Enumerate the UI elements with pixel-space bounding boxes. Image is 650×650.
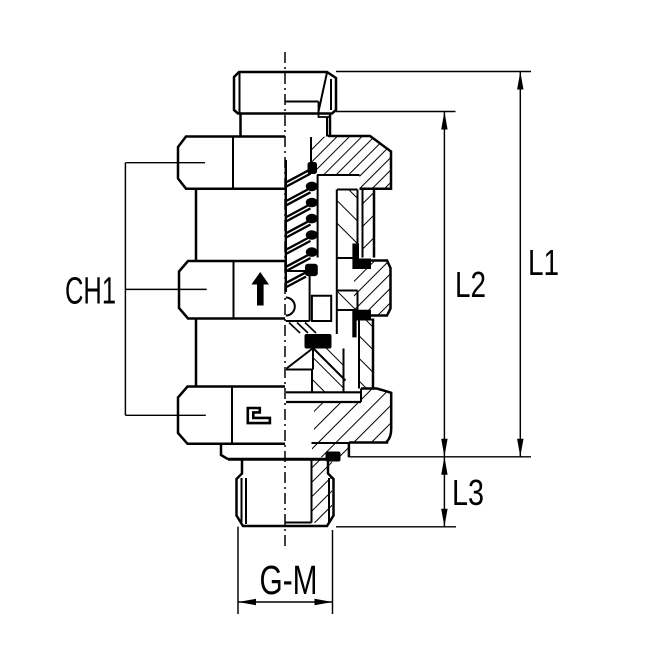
top stud right inner line bbox=[330, 79, 332, 110]
poppet stem box bbox=[312, 296, 331, 321]
svg-text:L3: L3 bbox=[452, 472, 484, 513]
bore shoulder line bbox=[286, 369, 312, 371]
svg-text:G-M: G-M bbox=[260, 557, 318, 603]
svg-text:CH1: CH1 bbox=[65, 271, 116, 313]
narrow section upper left edge bbox=[195, 190, 198, 261]
seal S3 bbox=[305, 334, 332, 349]
extension line stud bottom bbox=[336, 526, 456, 528]
cage upper outline bbox=[337, 189, 358, 191]
seat outer edge bbox=[343, 349, 345, 393]
hatch zone Z4 lower wall bbox=[359, 319, 373, 389]
cage bottom line bbox=[337, 257, 353, 259]
flow arrow glyph bbox=[251, 272, 269, 306]
poppet seat flange top line bbox=[286, 270, 310, 272]
cage right wall bbox=[357, 190, 359, 244]
hatch zone Z1b wall strip bbox=[363, 189, 375, 258]
bore wall below shoulder bbox=[311, 370, 313, 393]
top stud outline bbox=[234, 72, 336, 114]
G-M dimension line bbox=[238, 601, 333, 603]
washer left outline bbox=[221, 444, 228, 459]
washer band top line bbox=[286, 391, 361, 393]
middle hex left facet line bbox=[233, 261, 235, 319]
G symbol glyph bbox=[248, 408, 270, 423]
washer bottom thick edge bbox=[228, 458, 333, 461]
neck right edge bbox=[329, 114, 332, 137]
washer right edge bbox=[348, 443, 351, 457]
body wall outer edge bbox=[373, 189, 376, 258]
narrow section lower left edge bbox=[195, 319, 198, 387]
washer band bottom line bbox=[286, 401, 361, 403]
middle hex left outline bbox=[179, 261, 285, 319]
poppet nose arc bbox=[286, 298, 295, 316]
spring right guide line bbox=[317, 175, 319, 258]
neck right inner line bbox=[326, 117, 328, 137]
dimension L3 line bbox=[443, 457, 445, 527]
svg-text:L2: L2 bbox=[455, 264, 486, 305]
dimension L1 line bbox=[519, 72, 521, 457]
hatch zone Z5a bottom body hex right bbox=[314, 389, 391, 443]
hatch zone Z3 middle hex right bbox=[354, 261, 391, 316]
seal S2 bbox=[352, 244, 371, 270]
middle hex right outline bbox=[354, 261, 391, 316]
neck left edge bbox=[239, 114, 242, 137]
top stud step lines bbox=[319, 102, 331, 118]
bottom stud bore wall bbox=[311, 459, 313, 522]
seat cone left edge bbox=[287, 349, 313, 369]
bottom stud thread relief lines bbox=[241, 478, 243, 522]
seat top hatch ticks bbox=[289, 323, 300, 334]
bottom hex right inner edge bbox=[360, 389, 362, 403]
hatch zone Z6 seat piece bbox=[312, 349, 344, 393]
cage left wall bbox=[336, 190, 338, 335]
top stud thread relief line bbox=[239, 73, 241, 114]
spring coils bbox=[286, 169, 318, 287]
flange bore wall line bbox=[310, 137, 312, 163]
hatch zone Z1 body flange right bbox=[311, 136, 391, 189]
poppet bottom line bbox=[286, 320, 310, 322]
seal S5 bbox=[326, 452, 341, 462]
body wall inner edge bbox=[362, 189, 364, 258]
CH1 leader bracket bbox=[124, 163, 126, 416]
seal S4 bbox=[352, 310, 371, 338]
hatch zone washer right bbox=[312, 444, 349, 458]
extension line L2 top bbox=[336, 111, 456, 113]
hatch zone Z2 cage upper right bbox=[337, 190, 358, 244]
spring left line bbox=[285, 160, 287, 292]
bottom stud outline bbox=[237, 459, 334, 526]
extension line washer bottom bbox=[349, 456, 531, 458]
top stud section line bbox=[285, 101, 319, 103]
top stud thread bevel diagonal bbox=[319, 73, 328, 112]
flange hex left facet line bbox=[232, 137, 234, 189]
bottom stud bore bottom bbox=[285, 522, 312, 524]
poppet body right edge bbox=[309, 271, 311, 321]
spring seat top line bbox=[317, 174, 360, 176]
hatch zone Z2b cage mid bbox=[337, 291, 358, 311]
dimension L2 line bbox=[443, 112, 445, 457]
cage mid lines bbox=[337, 290, 358, 292]
G-M extension lines bbox=[237, 527, 239, 614]
hatch zone Z5c bottom stud wall right bbox=[312, 459, 333, 524]
bottom hex left outline bbox=[178, 387, 285, 444]
lower wall edges bbox=[358, 319, 360, 389]
flange right outline bbox=[328, 136, 391, 189]
seal S1 bbox=[308, 162, 318, 174]
flange hex left outline bbox=[178, 137, 285, 189]
bottom hex left facet line bbox=[231, 387, 233, 444]
centerline bbox=[284, 52, 286, 546]
bottom hex right outline bbox=[349, 389, 391, 443]
washer top line bbox=[312, 442, 350, 444]
seat cone right edge bbox=[314, 349, 346, 381]
seat center vertical bbox=[312, 349, 314, 370]
svg-text:L1: L1 bbox=[528, 242, 559, 283]
extension line top (L1) bbox=[336, 71, 531, 73]
